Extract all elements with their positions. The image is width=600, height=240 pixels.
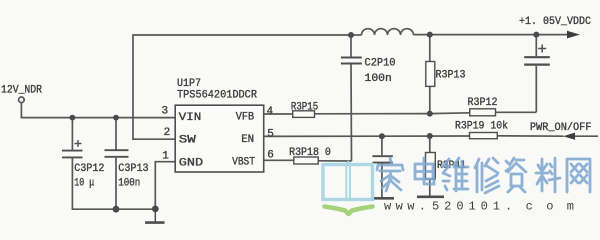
svg-text:12V_NDR: 12V_NDR: [1, 85, 42, 97]
watermark logo book: [323, 162, 373, 200]
wire cap bottoms to ground node: [72, 158, 155, 209]
watermark chinese characters: [377, 158, 590, 193]
ground main: [145, 209, 165, 222]
inductor: [362, 29, 414, 35]
svg-text:3: 3: [162, 106, 169, 118]
wire top rail after inductor: [414, 34, 537, 36]
wire VBST line: [264, 159, 352, 162]
wire top rail inductor left node: [351, 34, 362, 36]
capacitor C3P13: [105, 150, 129, 157]
svg-text:6: 6: [267, 150, 274, 162]
svg-text:SW: SW: [179, 135, 197, 147]
resistor R3P12: [470, 109, 496, 116]
resistor R3P41: [426, 153, 436, 180]
IC U1P7 TPS564201DDCR: [175, 105, 264, 172]
wire C3P13 top lead: [115, 118, 117, 150]
wire C3P13 bottom lead: [115, 158, 117, 209]
wire R3P13 leads: [429, 35, 431, 114]
svg-text:4: 4: [267, 106, 274, 118]
svg-text:+1. 05V_VDDC: +1. 05V_VDDC: [519, 16, 591, 28]
arrow +1.05V_VDDC output: [567, 31, 580, 39]
wire VDDC arrow line: [536, 34, 569, 36]
wire EN line: [264, 135, 598, 138]
svg-text:VBST: VBST: [232, 157, 255, 169]
capacitor C3P12: [62, 140, 83, 157]
svg-text:TPS564201DDCR: TPS564201DDCR: [177, 90, 257, 102]
wire SW riser to top rail: [133, 35, 351, 139]
svg-text:2: 2: [164, 127, 171, 139]
svg-text:R3P15: R3P15: [291, 101, 318, 113]
svg-text:R3P13: R3P13: [436, 70, 466, 82]
svg-text:PWR_ON/OFF: PWR_ON/OFF: [530, 122, 592, 134]
capacitor EN filter: [372, 156, 392, 162]
svg-text:C2P10: C2P10: [365, 58, 396, 70]
capacitor output electrolytic: [524, 45, 550, 65]
svg-text:GND: GND: [179, 158, 204, 170]
resistor R3P19: [470, 133, 498, 139]
svg-text:5: 5: [267, 128, 274, 140]
wire R3P12 leads: [430, 112, 537, 113]
wire output cap lower lead: [535, 66, 537, 112]
capacitor C2P10: [341, 58, 362, 64]
svg-text:100n: 100n: [365, 73, 392, 85]
svg-text:C3P13: C3P13: [118, 163, 148, 175]
svg-text:R3P19 10k: R3P19 10k: [455, 121, 508, 133]
svg-text:10 μ: 10 μ: [74, 178, 94, 190]
svg-text:U1P7: U1P7: [177, 78, 201, 90]
resistor R3P18: [294, 157, 318, 164]
wire C2P10 vertical: [350, 35, 353, 161]
svg-text:R3P18 0: R3P18 0: [289, 147, 331, 159]
wire VFB line: [264, 113, 430, 115]
arrow PWR_ON/OFF input: [563, 133, 575, 140]
svg-text:C3P12: C3P12: [74, 163, 104, 175]
ground EN cap: [371, 197, 394, 200]
svg-text:VFB: VFB: [236, 112, 255, 124]
wire R3P41 leads: [429, 136, 431, 196]
watermark logo green swoosh: [325, 207, 373, 215]
watermark url www.520101.com: [384, 200, 574, 214]
ground R3P41: [417, 196, 444, 199]
svg-text:R3P12: R3P12: [468, 97, 498, 109]
svg-text:1: 1: [162, 150, 169, 162]
svg-text:100n: 100n: [118, 178, 140, 190]
wire 12V input to VIN: [21, 103, 175, 118]
svg-text:EN: EN: [241, 134, 254, 146]
resistor R3P15: [293, 111, 315, 118]
wire GND pin1 down: [155, 162, 175, 209]
svg-text:VIN: VIN: [179, 112, 202, 124]
resistor R3P13: [426, 62, 435, 87]
node 12V_NDR terminal: [19, 97, 25, 103]
wire EN cap leads: [381, 136, 383, 197]
wire output cap top lead: [535, 35, 537, 56]
wire C3P12 top lead: [71, 118, 73, 150]
